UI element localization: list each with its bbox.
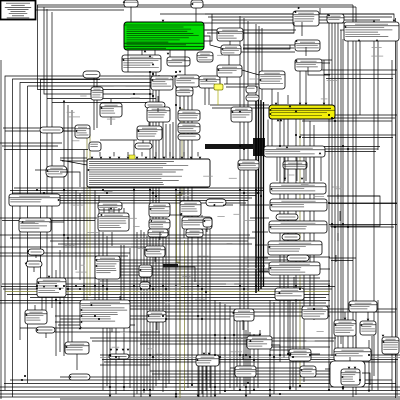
wire c bus 7 <box>247 21 249 383</box>
node B23 <box>264 146 325 157</box>
wire rr bus 9 <box>373 20 375 376</box>
wire r bus 2 <box>283 120 285 359</box>
wire left mid 8 <box>98 195 100 306</box>
arrowhead <box>268 246 270 249</box>
junction <box>214 386 216 388</box>
wire center bus 10a <box>133 140 135 397</box>
junction <box>133 189 135 191</box>
junction <box>165 318 167 320</box>
wire r bus 5 <box>303 120 305 383</box>
wire h257 <box>150 256 330 258</box>
wire center bus 12 <box>109 300 111 397</box>
node green main <box>124 22 204 50</box>
arrowhead <box>69 376 71 379</box>
arrowhead <box>109 157 112 159</box>
arrowhead <box>65 346 67 349</box>
junction <box>63 285 65 287</box>
wire h146 <box>320 146 380 148</box>
arrowhead <box>37 282 39 285</box>
node B59 <box>234 309 254 321</box>
junction <box>239 145 241 147</box>
bold junction blob <box>253 138 265 156</box>
bold wire bar <box>205 144 255 149</box>
node B24 <box>238 160 259 170</box>
arrowhead <box>269 113 271 116</box>
wire h151 <box>324 151 376 153</box>
wire v42b <box>41 297 43 310</box>
wire conn 58 <box>259 330 261 336</box>
wire rr bus 5 <box>342 39 344 390</box>
node SP2 <box>282 234 300 240</box>
wire center bus 16 <box>102 232 104 390</box>
wire conn 20 <box>148 122 150 126</box>
junction <box>328 285 330 287</box>
junction <box>162 315 164 317</box>
wire h224r <box>329 224 397 226</box>
arrowhead <box>149 208 151 211</box>
arrowhead <box>245 395 248 397</box>
node B27 <box>75 125 90 138</box>
wire h377 <box>60 376 340 378</box>
junction <box>247 382 249 384</box>
node B57 <box>196 355 219 366</box>
arrowhead <box>269 109 271 112</box>
junction <box>245 386 247 388</box>
arrowhead <box>144 50 147 52</box>
arrowhead <box>139 269 141 272</box>
arrowhead <box>328 14 331 16</box>
wire rr bus 4b <box>340 30 342 344</box>
wire h227r <box>331 226 394 228</box>
wire right frame 2 <box>395 18 397 398</box>
arrowhead <box>100 107 102 110</box>
junction <box>197 285 199 287</box>
arrowhead <box>382 341 384 344</box>
node S1 <box>270 183 326 194</box>
wire conn 51 <box>252 231 268 233</box>
node B1b <box>197 52 213 62</box>
arrowhead <box>221 48 223 51</box>
cluster container bottom-right <box>330 361 365 387</box>
wire h344 <box>140 343 250 345</box>
junction <box>197 315 199 317</box>
node B38 <box>145 246 165 257</box>
node B74 <box>89 142 101 151</box>
junction <box>253 359 255 361</box>
wire h297 <box>30 297 326 299</box>
wire thin v262 <box>261 28 263 100</box>
arrowhead <box>80 315 82 318</box>
wire center bus 11 <box>143 232 145 393</box>
junction <box>102 285 104 287</box>
wire h218 <box>0 217 97 219</box>
wire center bus 5 <box>175 75 177 398</box>
arrowhead <box>334 324 336 327</box>
wire pin b34 <box>123 208 125 213</box>
wire yb up 1 <box>287 95 289 104</box>
wire bc bus 1 <box>214 300 216 397</box>
arrowhead <box>175 396 178 398</box>
arrowhead <box>239 110 242 112</box>
junction <box>299 288 301 290</box>
wire v163t <box>162 122 164 158</box>
wire h241 <box>50 240 248 242</box>
wire top bus 5 <box>212 19 380 21</box>
node B7 <box>100 103 122 117</box>
wire center bus 9 <box>191 95 193 385</box>
wire h247 <box>0 246 145 248</box>
junction <box>175 189 177 191</box>
wire v94 <box>93 77 95 130</box>
wire pin <box>99 152 101 156</box>
arrowhead <box>95 259 97 262</box>
wire h303 <box>0 302 326 304</box>
wire rr bus 2 <box>331 17 333 356</box>
wire h300 <box>0 300 330 302</box>
junction <box>328 389 330 391</box>
wire olive center <box>177 108 183 398</box>
node B52 <box>65 342 89 354</box>
wire h200 <box>18 200 248 202</box>
junction <box>115 356 117 358</box>
wire c bus 12 <box>269 300 271 397</box>
arrowhead <box>48 276 51 278</box>
arrowhead <box>87 169 89 172</box>
wire rr bus 6 <box>347 39 349 386</box>
wire pin b34 <box>103 208 105 213</box>
wire conn 53 <box>256 257 268 259</box>
arrowhead <box>36 288 39 290</box>
wire pin <box>169 152 171 156</box>
node B6 <box>176 87 193 96</box>
wire c bus 6 <box>243 18 245 386</box>
wire center bus 4c <box>165 218 167 388</box>
wire bc bus 5 <box>233 310 235 390</box>
wire h374 <box>152 373 338 375</box>
junction <box>55 299 57 301</box>
junction <box>152 95 154 97</box>
wire right frame 1 <box>391 60 393 391</box>
wire conn 43 <box>169 214 180 216</box>
arrowhead <box>122 59 124 62</box>
junction <box>175 104 177 106</box>
wire conn 63 <box>355 336 357 348</box>
wire center bus 10b <box>136 232 138 394</box>
arrowhead <box>80 309 82 312</box>
junction <box>94 315 96 317</box>
wire c bus 10 <box>253 334 255 391</box>
wire v97 <box>96 77 98 128</box>
junction <box>67 237 69 239</box>
wire h332 <box>55 331 160 333</box>
node B53 <box>69 374 90 380</box>
arrowhead <box>298 7 300 10</box>
junction <box>342 386 344 388</box>
arrowhead <box>295 110 298 112</box>
junction <box>239 354 241 356</box>
title block <box>1 1 36 20</box>
wire top bus 1 <box>37 4 353 6</box>
junction <box>239 285 241 287</box>
wire left mid 3d <box>55 270 57 356</box>
wire conn 61 <box>344 312 346 320</box>
junction <box>36 285 38 287</box>
node BX1 <box>95 256 120 279</box>
arrowhead <box>162 20 165 22</box>
wire conn 31 <box>63 130 75 132</box>
arrowhead <box>90 304 92 307</box>
wire right bus 2 <box>355 7 357 395</box>
wire c bus 11 <box>257 336 259 388</box>
wire title bus 2 bend <box>44 7 153 94</box>
wire h140 <box>100 139 137 141</box>
junction <box>63 234 65 236</box>
junction <box>334 226 336 228</box>
wire h341 <box>92 340 334 342</box>
wire conn 33 <box>21 221 35 223</box>
wire bc bus 0b <box>201 215 203 394</box>
junction <box>55 285 57 287</box>
wire h158 <box>60 157 87 159</box>
wire h193 <box>12 192 260 194</box>
arrowhead <box>203 220 205 223</box>
junction <box>359 379 361 381</box>
arrowhead <box>109 395 112 397</box>
arrowhead <box>393 20 396 22</box>
wire pin b34 <box>118 208 120 213</box>
arrowhead <box>25 263 28 265</box>
junction <box>289 354 291 356</box>
wire olive right <box>299 120 301 387</box>
node B31 <box>28 249 44 255</box>
arrowhead <box>344 318 347 320</box>
wire h203 <box>20 202 246 204</box>
wire thin v259 <box>258 26 260 98</box>
wire h359 <box>102 359 398 361</box>
wire bold v4 <box>263 102 265 287</box>
node BX2 <box>139 265 152 277</box>
wire conn 60 <box>311 353 320 355</box>
node SP1 <box>276 214 298 220</box>
wire yb up 3 <box>305 67 307 104</box>
arrowhead <box>358 39 361 41</box>
wire conn 75 <box>337 233 339 241</box>
wire h70r <box>322 69 397 71</box>
wire h338 <box>90 337 336 339</box>
wire conn 8 <box>226 77 228 84</box>
wire r bus 7 <box>313 125 315 320</box>
wire pin b57 <box>210 366 212 397</box>
wire h102 <box>52 101 159 103</box>
wire olive center 2 <box>184 240 186 390</box>
wire h281 <box>100 280 330 282</box>
wire r bus 1 <box>279 120 281 363</box>
node B72 <box>83 71 100 78</box>
junction <box>243 288 245 290</box>
node BY1 <box>302 306 328 319</box>
wire title bus 3 <box>46 9 48 292</box>
arrowhead <box>259 79 261 82</box>
wire h355 <box>100 354 400 356</box>
arrowhead <box>344 26 346 29</box>
wire bold v2 <box>258 98 260 291</box>
junction <box>224 390 226 392</box>
junction <box>279 145 281 147</box>
wire center bus 2 <box>152 63 154 390</box>
arrowhead <box>217 69 219 72</box>
node B35 <box>149 203 170 217</box>
wire h33 <box>207 32 294 34</box>
wire h84 <box>224 83 259 85</box>
wire rr bus 10 <box>377 41 379 150</box>
wire h258r <box>329 257 356 259</box>
wire conn 16 <box>110 99 112 103</box>
wire h188 <box>14 187 264 189</box>
wire rr bus 1 <box>328 14 330 390</box>
junction <box>149 354 151 356</box>
wire pin <box>127 152 129 156</box>
wire left mid 3e <box>59 250 61 352</box>
wire center bus 6 <box>179 80 181 394</box>
wire b23 down <box>305 158 307 182</box>
junction <box>260 195 262 197</box>
arrowhead <box>208 353 211 355</box>
wire rr bus 7c <box>371 336 373 390</box>
wire center bus 14 <box>123 245 125 391</box>
wire v27b <box>27 86 29 383</box>
junction <box>331 223 333 225</box>
wire conn 18 <box>157 96 159 102</box>
wire center bus 4d <box>168 221 170 384</box>
edge labels texture <box>65 48 383 355</box>
wire conn 2 <box>204 14 212 41</box>
wire h362 <box>104 361 396 363</box>
wire conn 48 <box>206 227 208 232</box>
node big record U1 <box>87 159 210 187</box>
node B61 <box>289 349 311 361</box>
wire conn 15 <box>184 50 186 75</box>
wire title bus 1 bend <box>38 5 151 90</box>
wire conn 39 <box>45 333 47 338</box>
node B36b <box>148 229 168 237</box>
arrowhead <box>354 367 357 369</box>
wire conn 66 <box>362 373 370 385</box>
junction <box>98 318 100 320</box>
wire pin b57 <box>206 366 208 397</box>
wire h306 <box>130 305 330 307</box>
wire h256 <box>0 255 128 257</box>
junction <box>149 93 151 95</box>
junction <box>342 223 344 225</box>
wire conn 45 <box>154 257 156 262</box>
node B11 <box>135 143 152 149</box>
arrowhead <box>277 119 280 121</box>
junction <box>347 148 349 150</box>
wire b23 down <box>296 158 298 182</box>
wire h149b <box>4 149 88 151</box>
wire conn 12 <box>154 50 156 55</box>
wire h368 <box>230 367 300 369</box>
arrowhead <box>43 286 46 288</box>
wire h87 <box>226 86 258 88</box>
wire h10 <box>36 9 124 11</box>
wire b23 down <box>276 158 278 182</box>
wire conn 59 <box>271 345 280 349</box>
arrowhead <box>100 157 103 159</box>
junction <box>279 354 281 356</box>
wire left mid 4 <box>63 100 65 356</box>
wire h322 <box>55 321 130 323</box>
wire rr bus 4 <box>337 23 339 348</box>
wire h244 <box>58 243 252 245</box>
node B37c <box>186 229 203 237</box>
junction <box>165 288 167 290</box>
wire bc bus 0 <box>197 210 199 397</box>
node B51 <box>36 327 55 333</box>
node B70 <box>191 0 203 8</box>
arrowhead <box>238 164 240 167</box>
arrowhead <box>286 146 289 148</box>
junction <box>255 189 257 191</box>
arrowhead <box>368 390 371 392</box>
arrowhead <box>284 178 287 180</box>
junction <box>152 356 154 358</box>
node B54 <box>80 300 130 328</box>
arrowhead <box>269 267 271 270</box>
arrowhead <box>154 157 157 159</box>
junction <box>219 356 221 358</box>
wire h143 <box>0 142 62 144</box>
arrowhead <box>289 353 291 356</box>
node B13 <box>178 123 200 133</box>
wire h272 <box>120 271 300 273</box>
node B19b <box>246 86 257 93</box>
wire conn 4 <box>243 45 290 49</box>
arrowhead <box>179 71 182 73</box>
wire h198 <box>16 197 252 199</box>
wire olive h291 <box>5 291 330 293</box>
arrowhead <box>58 199 60 202</box>
node B73 <box>91 87 103 100</box>
wire bottom bus 6 <box>0 396 400 398</box>
node B8 <box>145 102 165 108</box>
arrowhead <box>294 11 296 14</box>
arrowhead <box>197 395 200 397</box>
arrowhead <box>196 359 198 362</box>
wire conn 71 <box>205 366 207 380</box>
arrowhead <box>382 335 385 337</box>
junction <box>24 375 26 377</box>
wire c bus 9 <box>249 332 251 394</box>
wire conn 46 <box>178 267 195 282</box>
wire center bus 4b <box>162 215 164 392</box>
junction <box>21 379 23 381</box>
wire h284 <box>2 283 330 285</box>
wire yb down 1 <box>267 120 269 147</box>
wire center bus 7 <box>183 88 185 238</box>
wire h98 <box>47 98 156 100</box>
wire bold v1 <box>255 96 257 293</box>
arrowhead <box>180 213 182 216</box>
junction <box>162 285 164 287</box>
arrowhead <box>289 105 292 107</box>
node S2 <box>270 199 327 211</box>
junction <box>59 288 61 290</box>
wire h294 <box>7 294 329 296</box>
arrowhead <box>348 367 351 369</box>
junction <box>152 192 154 194</box>
bold wire segment center <box>163 264 178 268</box>
